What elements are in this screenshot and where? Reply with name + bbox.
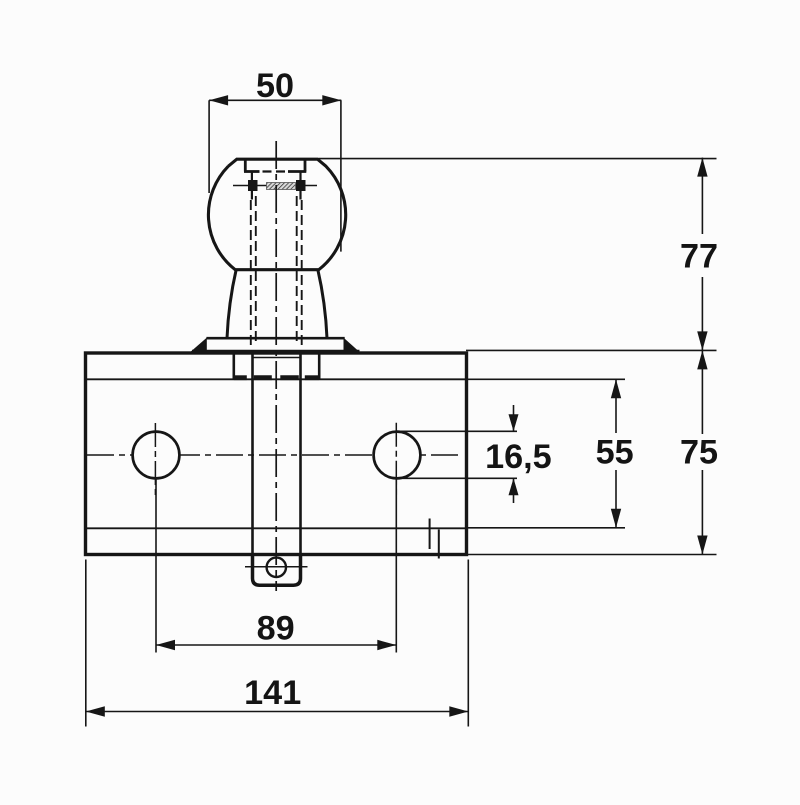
nut bottom band seg2 — [254, 375, 272, 380]
svg-text:50: 50 — [256, 67, 294, 105]
recess bottom left segment — [244, 170, 260, 173]
recess-to-block left link — [251, 172, 253, 181]
dim 16,5 bottom arrow — [509, 478, 519, 495]
nut left side — [233, 353, 236, 379]
svg-text:89: 89 — [257, 610, 295, 648]
dim 50 left arrow — [209, 95, 228, 105]
stud shoulder line in nut — [253, 357, 301, 359]
plate inner top line — [86, 378, 467, 380]
plate bottom extension line — [466, 554, 717, 556]
dim 77 top arrow — [697, 158, 707, 177]
dim 55 line upper — [615, 379, 617, 433]
break mark right stroke — [438, 530, 440, 559]
recess bottom right segment — [288, 170, 306, 173]
holes center line horizontal — [87, 454, 462, 456]
dim 75 line upper — [701, 350, 703, 434]
ball recess left wall — [244, 159, 247, 171]
stud hidden right below block — [299, 191, 301, 200]
stud left edge — [251, 353, 254, 579]
left pin block — [248, 180, 258, 191]
dim 16,5 top arrow stem — [513, 405, 515, 431]
flange right black corner — [344, 338, 360, 352]
dim 16,5 bottom extension — [403, 477, 517, 479]
left hole vertical center line — [154, 423, 156, 499]
ball top extension line — [319, 158, 717, 160]
nut right side — [318, 353, 321, 379]
flange top line — [206, 337, 344, 340]
dim 16,5 top extension — [400, 430, 517, 432]
recess bottom hidden dashes — [263, 170, 287, 172]
ball recess right wall — [304, 159, 307, 171]
left hole — [133, 432, 180, 479]
pin hole center line — [245, 566, 308, 568]
main vertical center line — [275, 141, 277, 591]
right pin block — [296, 180, 306, 191]
dim 77 line upper — [701, 158, 703, 234]
svg-text:55: 55 — [596, 434, 634, 472]
dim 55 line lower — [615, 470, 617, 528]
flange left black corner — [191, 338, 207, 352]
dim 55 bottom extension — [467, 527, 625, 529]
nut bottom band seg1 — [234, 375, 247, 380]
dim 75 top arrow — [697, 350, 707, 369]
svg-text:141: 141 — [244, 674, 301, 712]
dim 75 bottom arrow — [697, 536, 707, 555]
hidden thread inner left dashed — [255, 196, 257, 346]
right hole vertical center line — [395, 423, 397, 499]
dim 55 top extension — [467, 378, 625, 380]
dim 16,5 top arrow — [509, 414, 519, 431]
dim 55 top arrow — [611, 379, 621, 398]
right hole — [374, 432, 421, 479]
neck left side — [227, 270, 236, 339]
nut bottom band seg3 — [280, 375, 299, 380]
dim 89 line — [156, 644, 396, 646]
plate inner bottom line — [86, 527, 467, 529]
mount face extension line — [466, 349, 717, 351]
dim 16,5 bottom arrow stem — [513, 478, 515, 503]
hidden stud outer left dashed — [250, 200, 252, 352]
svg-text:77: 77 — [680, 238, 718, 276]
svg-text:16,5: 16,5 — [485, 438, 552, 476]
dim 77 bottom arrow — [697, 331, 707, 350]
break mark left stroke — [429, 519, 431, 550]
dim 89 right extension — [395, 477, 397, 653]
dim 50 right arrow — [322, 95, 341, 105]
dim 50 right extension — [340, 100, 342, 251]
center hatched bar — [267, 183, 296, 190]
flange bottom line — [192, 350, 360, 352]
dim 75 line lower — [701, 470, 703, 555]
dim 141 line — [86, 711, 469, 713]
dim 89 left arrow — [156, 640, 175, 650]
dim 77 line lower — [701, 277, 703, 350]
svg-text:75: 75 — [680, 434, 718, 472]
dim 55 bottom arrow — [611, 509, 621, 528]
dim 141 right extension — [467, 560, 469, 727]
dim 141 right arrow — [449, 706, 468, 716]
dim 89 right arrow — [377, 640, 396, 650]
insert top line — [233, 185, 317, 187]
pin hole — [267, 558, 286, 577]
ball outline — [208, 159, 345, 270]
dim 50 line — [209, 99, 341, 101]
recess-to-block right link — [299, 172, 301, 181]
dim 141 left extension — [85, 560, 87, 727]
stud right edge — [299, 353, 302, 579]
dim 89 left extension — [155, 479, 157, 653]
dim 141 left arrow — [86, 706, 105, 716]
dim 50 left extension — [208, 100, 210, 193]
stud bottom cap — [253, 553, 301, 585]
neck right side — [318, 270, 327, 339]
hidden thread inner right dashed — [296, 196, 298, 346]
stud hidden left below block — [251, 191, 253, 200]
nut bottom band seg4 — [305, 375, 319, 380]
plate body — [86, 353, 467, 555]
hidden stud outer right dashed — [301, 200, 303, 352]
